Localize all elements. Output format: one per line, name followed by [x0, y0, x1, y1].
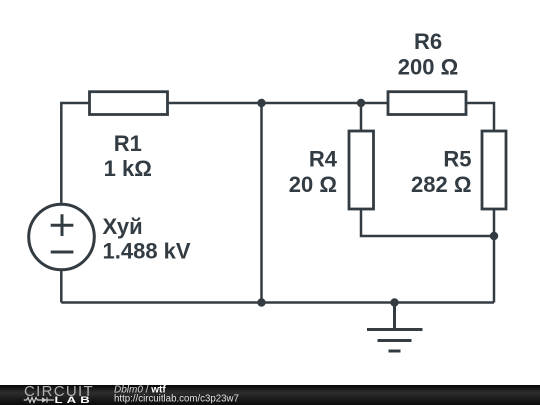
svg-text:Хуй: Хуй: [103, 214, 143, 239]
node D junction dot: [257, 298, 265, 306]
svg-text:1 kΩ: 1 kΩ: [104, 156, 152, 181]
wire: bottom rail: [61, 301, 494, 304]
wire: node B down to R4 top: [360, 103, 363, 131]
node B junction dot: [357, 99, 365, 107]
wire: R4 bottom down and right to node C: [361, 209, 494, 236]
node C junction dot: [490, 232, 498, 240]
wire: V1 bottom to bottom rail: [60, 270, 63, 303]
resistor R1 body: [90, 92, 168, 115]
footer bar: [0, 385, 540, 405]
wire: node C down to bottom rail: [493, 236, 496, 303]
wire: R5 bottom down to node C: [493, 209, 496, 236]
footer logo resistor zigzag and diode symbol: [24, 397, 54, 402]
wire: node B to R6 left: [361, 102, 388, 105]
svg-text:282 Ω: 282 Ω: [411, 172, 471, 197]
svg-text:LAB: LAB: [55, 396, 94, 405]
wire: R1 right to node A: [168, 102, 262, 105]
V1 minus sign: [51, 251, 74, 254]
svg-text:200 Ω: 200 Ω: [398, 55, 458, 80]
ground bar wide: [367, 328, 423, 331]
resistor R6 body: [388, 92, 466, 115]
wire: R6 right, corner down to R5 top: [466, 103, 494, 131]
V1 plus sign: [51, 214, 74, 236]
voltage source V1 circle: [29, 204, 95, 270]
node A junction dot: [257, 99, 265, 107]
svg-text:http://circuitlab.com/c3p23w7: http://circuitlab.com/c3p23w7: [114, 393, 239, 404]
wire: node A to node B: [262, 102, 362, 105]
ground bar middle: [378, 339, 412, 342]
ground bar small: [389, 350, 401, 353]
node E junction dot (ground tap): [390, 298, 398, 306]
svg-text:R5: R5: [443, 147, 471, 172]
svg-text:20 Ω: 20 Ω: [289, 172, 337, 197]
ground stem: [393, 303, 396, 330]
svg-text:1.488 kV: 1.488 kV: [103, 238, 191, 263]
wire: middle rail node A down to node D: [260, 103, 263, 303]
resistor R4 body: [349, 131, 374, 209]
wire: left rail from top corner down to V1 top: [61, 103, 89, 204]
svg-text:R1: R1: [114, 131, 142, 156]
svg-text:R6: R6: [414, 29, 442, 54]
svg-text:R4: R4: [309, 147, 338, 172]
resistor R5 body: [482, 131, 506, 209]
